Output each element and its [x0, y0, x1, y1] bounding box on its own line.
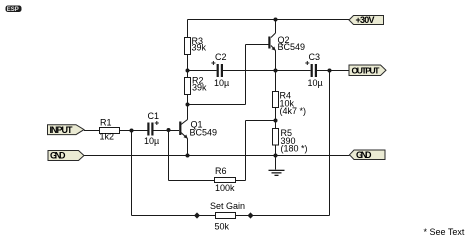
svg-text:GND: GND [356, 150, 372, 160]
svg-text:39k: 39k [192, 43, 207, 53]
svg-text:Set Gain: Set Gain [210, 201, 245, 211]
svg-text:39k: 39k [192, 83, 207, 93]
svg-text:10µ: 10µ [308, 78, 323, 88]
svg-text:OUTPUT: OUTPUT [352, 65, 381, 75]
svg-text:50k: 50k [215, 222, 230, 232]
svg-text:BC549: BC549 [190, 128, 218, 138]
svg-text:C3: C3 [309, 52, 321, 62]
svg-text:10µ: 10µ [214, 78, 229, 88]
svg-text:ESP: ESP [7, 7, 19, 13]
svg-text:BC549: BC549 [278, 42, 306, 52]
svg-text:+30V: +30V [356, 15, 375, 25]
svg-text:100k: 100k [215, 183, 235, 193]
svg-text:(180 *): (180 *) [281, 144, 308, 154]
svg-text:1k2: 1k2 [100, 132, 115, 142]
svg-text:R1: R1 [100, 118, 112, 128]
svg-text:C1: C1 [148, 111, 160, 121]
svg-text:INPUT: INPUT [50, 125, 74, 135]
svg-text:* See Text: * See Text [424, 227, 465, 237]
svg-text:C2: C2 [215, 52, 227, 62]
svg-text:(4k7 *): (4k7 *) [280, 106, 307, 116]
svg-text:R6: R6 [215, 166, 227, 176]
svg-text:10µ: 10µ [144, 136, 159, 146]
svg-text:GND: GND [50, 151, 66, 161]
